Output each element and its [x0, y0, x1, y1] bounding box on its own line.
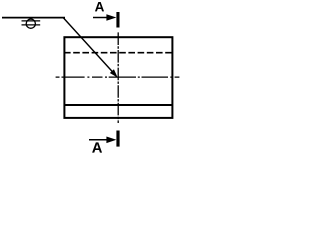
hidden line (dashed) [64, 52, 173, 54]
section arrow line top [93, 17, 108, 19]
weld reference line [2, 17, 65, 19]
section arrowhead top [106, 14, 116, 21]
seam weld symbol circle [26, 19, 35, 28]
vertical centerline [117, 32, 119, 123]
label A top [95, 2, 104, 11]
part outline rectangle [64, 37, 172, 118]
leader arrowhead [111, 70, 117, 77]
section cut thick bar top [116, 12, 119, 28]
leader line [63, 18, 114, 74]
inner bottom line [64, 104, 173, 106]
seam weld symbol upper side line [22, 20, 41, 22]
label A bottom [92, 142, 102, 152]
horizontal centerline [56, 76, 180, 78]
seam weld symbol lower side line [22, 24, 41, 26]
section arrow line bottom [89, 139, 108, 141]
section arrowhead bottom [106, 137, 116, 144]
section cut thick bar bottom [116, 131, 119, 147]
